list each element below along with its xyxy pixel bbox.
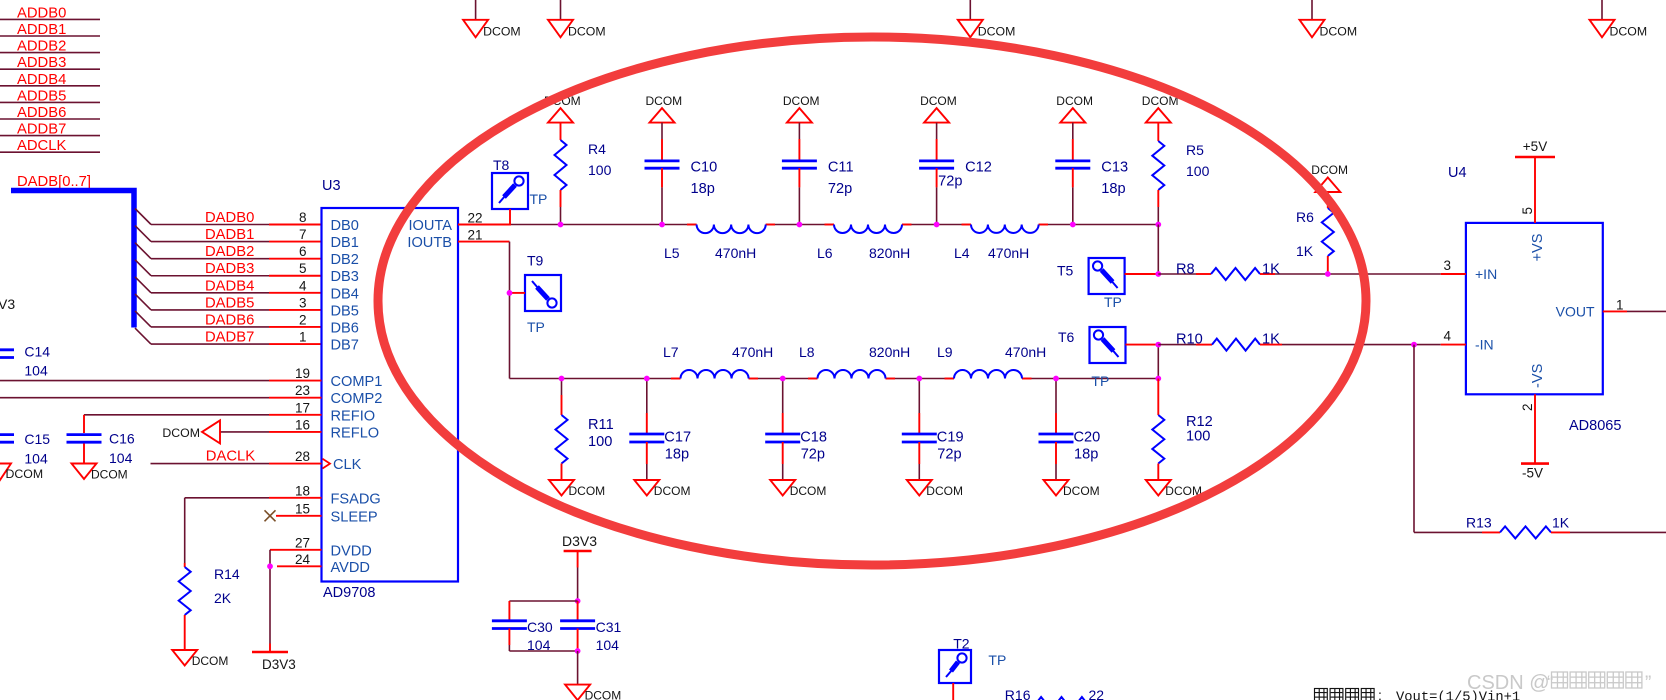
power -5V: [1521, 394, 1549, 480]
bus DADB[0..7] thick line: [11, 191, 134, 328]
svg-text:T2: T2: [953, 636, 970, 652]
svg-text:C15: C15: [24, 431, 50, 447]
svg-text:C20: C20: [1074, 430, 1101, 446]
capacitor C17 18p: [629, 379, 691, 481]
svg-text:“: “: [1547, 673, 1553, 694]
junction C13 / top chain: [1070, 222, 1076, 228]
svg-text:3: 3: [1443, 258, 1451, 273]
resistor R8 1K: [1158, 262, 1280, 281]
svg-text:D3V3: D3V3: [562, 533, 597, 549]
test point T2 TP: [939, 636, 1006, 700]
junction -IN / R13 branch: [1411, 342, 1417, 348]
svg-text:L4: L4: [954, 245, 970, 261]
svg-text:1K: 1K: [1262, 262, 1280, 278]
U4 pin 3 +IN: [1441, 258, 1497, 282]
inductor L6 820nH: [817, 225, 910, 262]
ground DCOM above C12: [920, 94, 957, 123]
svg-text:ADDB5: ADDB5: [17, 88, 66, 104]
svg-text:C14: C14: [24, 344, 50, 360]
svg-text:2K: 2K: [214, 590, 232, 606]
svg-text:ADDB3: ADDB3: [17, 55, 66, 71]
net label ADDB2 with wire: [0, 39, 100, 55]
svg-text:18p: 18p: [691, 181, 715, 197]
inductor L8 820nH: [799, 344, 910, 379]
svg-text:2: 2: [299, 312, 307, 327]
wire bottom chain: [510, 378, 1159, 380]
svg-text:DCOM: DCOM: [1063, 484, 1100, 498]
ground DCOM below C17: [634, 480, 690, 498]
wire DADB6 with net label: [151, 312, 322, 328]
svg-text:DB3: DB3: [331, 269, 359, 285]
svg-text:-IN: -IN: [1475, 337, 1494, 353]
svg-text:AVDD: AVDD: [331, 560, 370, 576]
svg-text:R6: R6: [1296, 209, 1314, 225]
U3 pin 8 DB0: [299, 210, 359, 234]
wire R13 to right edge: [1570, 531, 1666, 533]
svg-text:DB5: DB5: [331, 303, 359, 319]
svg-text:DCOM: DCOM: [1320, 25, 1358, 39]
junction R6 / +IN wire: [1325, 271, 1331, 277]
svg-text:ADDB2: ADDB2: [17, 39, 66, 55]
ground DCOM below R14: [172, 615, 228, 668]
junction R5 / top chain: [1155, 222, 1161, 228]
capacitor C18 72p: [765, 379, 827, 481]
wire VOUT to right edge: [1627, 310, 1666, 312]
svg-text:ADDB6: ADDB6: [17, 105, 66, 121]
junction D3V3 bottom node: [575, 648, 581, 654]
wire to COMP2 from left edge: [0, 397, 269, 399]
svg-text:T5: T5: [1057, 263, 1074, 279]
svg-text:DCOM: DCOM: [790, 484, 827, 498]
junction C20 / bottom chain: [1053, 376, 1059, 382]
wire R10 to op-amp -IN: [1282, 344, 1441, 346]
svg-text:V3: V3: [0, 296, 15, 312]
U3 pin 28 CLK with clock chevron: [269, 449, 362, 473]
wire DADB7 with net label: [151, 330, 322, 346]
svg-text:7: 7: [299, 227, 307, 242]
svg-text:TP: TP: [988, 652, 1006, 668]
ground DCOM above C11: [783, 94, 820, 123]
svg-text:820nH: 820nH: [869, 344, 910, 360]
svg-text:REFLO: REFLO: [331, 425, 380, 441]
bus entry DADB0: [135, 209, 151, 225]
inductor L9 470nH: [937, 344, 1046, 379]
svg-text:L5: L5: [664, 245, 680, 261]
svg-text:ADDB0: ADDB0: [17, 5, 66, 21]
wire DADB1 with net label: [151, 227, 322, 243]
U4 designator: [1448, 165, 1467, 181]
ground DCOM above R4: [544, 94, 581, 123]
svg-text:DCOM: DCOM: [926, 484, 963, 498]
svg-text:L6: L6: [817, 245, 833, 261]
svg-text:C13: C13: [1101, 159, 1128, 175]
svg-text:100: 100: [1186, 429, 1210, 445]
inductor L5 470nH: [664, 225, 766, 262]
ground DCOM top edge at x=1602: [1590, 0, 1648, 39]
svg-text:L9: L9: [937, 344, 953, 360]
svg-text:18p: 18p: [1101, 181, 1125, 197]
svg-text:T8: T8: [493, 157, 510, 173]
svg-text:4: 4: [299, 278, 307, 293]
svg-text:DCOM: DCOM: [978, 25, 1016, 39]
IC U3 AD9708 body: [322, 208, 459, 582]
svg-text:5: 5: [1520, 207, 1535, 215]
svg-text:C17: C17: [664, 430, 691, 446]
formula text (CJK) zhuanhuan gongshi: [1315, 687, 1382, 700]
junction C17 / bottom chain: [644, 376, 650, 382]
svg-text:C12: C12: [965, 159, 992, 175]
svg-text:104: 104: [596, 637, 620, 653]
svg-text:+5V: +5V: [1523, 139, 1547, 154]
svg-text:DACLK: DACLK: [206, 448, 255, 464]
svg-text:72p: 72p: [938, 174, 962, 190]
svg-text:DADB5: DADB5: [205, 295, 254, 311]
svg-text:DADB[0..7]: DADB[0..7]: [17, 174, 91, 190]
U3 pin 5 DB3: [299, 261, 359, 285]
junction C11 / top chain: [797, 222, 803, 228]
ground DCOM top edge at x=1312: [1300, 0, 1358, 39]
svg-text:4: 4: [1443, 329, 1451, 344]
bus entry DADB1: [135, 226, 151, 242]
U3 pin 21 IOUTB: [407, 228, 482, 251]
svg-text:100: 100: [1186, 163, 1210, 179]
svg-text:DCOM: DCOM: [646, 94, 683, 108]
svg-text:2: 2: [1520, 403, 1535, 411]
bus entry DADB7: [135, 328, 151, 344]
U3 pin 16 REFLO: [269, 417, 379, 441]
ground DCOM top edge at x=970.3: [958, 0, 1016, 39]
red ellipse annotation: [378, 37, 1366, 565]
ground DCOM left-pointing at REFLO: [162, 420, 220, 443]
ground DCOM below C18: [770, 480, 826, 498]
svg-text:IOUTB: IOUTB: [407, 235, 452, 251]
svg-text:820nH: 820nH: [869, 245, 910, 261]
ground DCOM top edge at x=475.6: [463, 0, 521, 39]
power D3V3 decoupling: [562, 533, 597, 601]
net label ADCLK with wire: [0, 138, 100, 154]
junction AVDD node: [267, 563, 273, 569]
wire IOUTA top chain: [458, 224, 1158, 226]
junction bottom chain / R12: [1155, 376, 1161, 382]
capacitor C20 18p: [1039, 379, 1101, 481]
junction T9 node: [507, 290, 513, 296]
svg-text:ADDB1: ADDB1: [17, 22, 66, 38]
net label ADDB1 with wire: [0, 22, 100, 38]
junction C10 / top chain: [659, 222, 665, 228]
U3 pin 17 REFIO: [269, 400, 375, 424]
ground DCOM above C10: [646, 94, 683, 123]
junction R11 / bottom chain: [559, 376, 565, 382]
svg-text:470nH: 470nH: [715, 245, 756, 261]
svg-text:L7: L7: [663, 344, 679, 360]
svg-text:DADB2: DADB2: [205, 244, 254, 260]
junction C18 / bottom chain: [780, 376, 786, 382]
svg-text:DADB1: DADB1: [205, 227, 254, 243]
svg-text:D3V3: D3V3: [262, 657, 296, 672]
svg-text:C31: C31: [596, 619, 622, 635]
svg-text:FSADG: FSADG: [331, 491, 381, 507]
svg-text:+VS: +VS: [1530, 233, 1546, 261]
ground DCOM below C19: [907, 480, 963, 498]
formula Vout=(1/5)Vin+1: [1396, 690, 1520, 700]
svg-text:DADB4: DADB4: [205, 278, 254, 294]
svg-text:TP: TP: [1104, 294, 1122, 310]
svg-text:DCOM: DCOM: [91, 468, 128, 482]
watermark CSDN: [1467, 672, 1651, 694]
svg-text:DCOM: DCOM: [654, 484, 691, 498]
svg-text:DCOM: DCOM: [585, 689, 622, 700]
svg-text:DCOM: DCOM: [920, 94, 957, 108]
svg-text:5: 5: [299, 261, 307, 276]
svg-text:C10: C10: [691, 159, 718, 175]
svg-text:16: 16: [295, 417, 310, 432]
wire top chain down to R8 row: [1157, 225, 1159, 275]
svg-text:72p: 72p: [828, 181, 852, 197]
svg-text:470nH: 470nH: [732, 344, 773, 360]
U3 pin 1 DB7: [299, 330, 359, 354]
svg-text:TP: TP: [527, 319, 545, 335]
svg-text:DB6: DB6: [331, 320, 359, 336]
svg-text:REFIO: REFIO: [331, 408, 376, 424]
resistor R6 1K: [1296, 192, 1334, 274]
wire FSADG to R14: [185, 498, 269, 567]
wire bottom chain up to R10 row: [1157, 345, 1159, 379]
svg-text:L8: L8: [799, 344, 815, 360]
svg-text:R11: R11: [588, 417, 614, 433]
svg-text:18: 18: [295, 483, 310, 498]
svg-text:AD8065: AD8065: [1569, 418, 1621, 434]
svg-text:17: 17: [295, 400, 310, 415]
svg-text:DB0: DB0: [331, 218, 359, 234]
svg-text:DCOM: DCOM: [1311, 163, 1348, 177]
svg-text:22: 22: [1089, 687, 1105, 700]
U3 pin 22 IOUTA: [408, 211, 482, 235]
junction C19 / bottom chain: [916, 376, 922, 382]
wire R8 to op-amp +IN: [1275, 273, 1441, 275]
svg-text:DCOM: DCOM: [568, 25, 606, 39]
ground DCOM above R6: [1311, 163, 1348, 192]
svg-text:23: 23: [295, 383, 310, 398]
U3 pin 23 COMP2: [269, 383, 382, 407]
svg-text:C16: C16: [109, 431, 135, 447]
svg-text:DB4: DB4: [331, 286, 359, 302]
svg-text:DVDD: DVDD: [331, 543, 372, 559]
capacitor C13 18p: [1055, 123, 1128, 225]
net label ADDB6 with wire: [0, 105, 100, 121]
svg-text:U4: U4: [1448, 165, 1467, 181]
svg-text:T6: T6: [1058, 329, 1075, 345]
svg-text:DADB3: DADB3: [205, 261, 254, 277]
svg-text:R8: R8: [1176, 262, 1195, 278]
svg-text:DCOM: DCOM: [1610, 25, 1648, 39]
wire DADB4 with net label: [151, 278, 322, 294]
resistor R13 1K: [1466, 515, 1570, 539]
svg-text:22: 22: [468, 211, 483, 226]
svg-text:6: 6: [299, 244, 307, 259]
svg-text:SLEEP: SLEEP: [331, 509, 378, 525]
wire REFLO to DCOM: [220, 431, 269, 433]
wire -IN branch down to R13 row: [1414, 345, 1482, 533]
svg-text:DADB7: DADB7: [205, 330, 254, 346]
capacitor C19 72p: [902, 379, 964, 481]
svg-text:27: 27: [295, 535, 310, 550]
resistor R12 100: [1152, 379, 1212, 481]
svg-text:DCOM: DCOM: [483, 25, 521, 39]
resistor R4 100: [555, 123, 612, 225]
U3 pin 19 COMP1: [269, 366, 382, 390]
ground DCOM below C16: [72, 444, 128, 482]
svg-text:R13: R13: [1466, 515, 1492, 531]
bus DADB[0..7] label: [17, 174, 91, 190]
bus entry DADB3: [135, 260, 151, 276]
inductor L7 470nH: [663, 344, 773, 379]
svg-text:DCOM: DCOM: [783, 94, 820, 108]
ground DCOM below R12: [1146, 480, 1202, 498]
U3 designator: [322, 178, 341, 194]
junction R4 / top chain: [558, 222, 564, 228]
svg-text:TP: TP: [530, 191, 548, 207]
bus entry DADB6: [135, 311, 151, 327]
wire DADB5 with net label: [151, 295, 322, 311]
U3 pin 27 DVDD: [270, 535, 372, 559]
wire DADB3 with net label: [151, 261, 322, 277]
svg-text:8: 8: [299, 210, 307, 225]
svg-text:1K: 1K: [1296, 243, 1314, 259]
svg-text:72p: 72p: [937, 447, 961, 463]
svg-text:C30: C30: [527, 619, 553, 635]
U3 pin 24 AVDD: [277, 552, 370, 576]
ground DCOM below R11: [549, 480, 605, 498]
wire DADB0 with net label: [151, 210, 322, 226]
svg-text:DB2: DB2: [331, 252, 359, 268]
wire REFIO to C16: [84, 415, 269, 433]
ground DCOM top edge at x=560.5: [548, 0, 606, 39]
op-amp U4 body: [1466, 223, 1603, 394]
svg-text:24: 24: [295, 552, 311, 567]
svg-text:R16: R16: [1005, 687, 1031, 700]
capacitor C30 104: [492, 601, 578, 653]
svg-text:104: 104: [527, 637, 551, 653]
svg-text:72p: 72p: [801, 447, 825, 463]
svg-text:1: 1: [1616, 297, 1624, 312]
test point T9 TP: [510, 253, 562, 336]
U3 pin 15 SLEEP with no-connect X: [265, 501, 378, 525]
inductor L4 470nH: [954, 225, 1039, 262]
svg-text:+IN: +IN: [1475, 266, 1497, 282]
svg-text:AD9708: AD9708: [323, 585, 375, 601]
svg-text:ADDB4: ADDB4: [17, 72, 66, 88]
svg-text:C19: C19: [937, 430, 964, 446]
net label ADDB4 with wire: [0, 72, 100, 88]
net label ADDB7 with wire: [0, 122, 100, 138]
svg-text:100: 100: [588, 434, 612, 450]
svg-text:R14: R14: [214, 566, 240, 582]
svg-text:104: 104: [24, 451, 48, 467]
svg-text:DCOM: DCOM: [192, 654, 229, 668]
capacitor C31 104: [560, 601, 621, 653]
junction C12 / top chain: [934, 222, 940, 228]
capacitor C15 104: [0, 431, 50, 467]
U3 pin 4 DB4: [299, 278, 359, 302]
svg-text:CSDN @: CSDN @: [1467, 672, 1550, 694]
svg-text:-5V: -5V: [1522, 466, 1543, 481]
test point T8 TP: [492, 157, 547, 225]
svg-text:104: 104: [109, 450, 133, 466]
resistor R11 100: [556, 379, 614, 481]
ground DCOM below C20: [1044, 480, 1100, 498]
resistor R10 1K: [1158, 332, 1282, 351]
svg-text:COMP1: COMP1: [331, 374, 383, 390]
bus entry DADB4: [135, 277, 151, 293]
junction T5 / R8 node: [1155, 271, 1161, 277]
capacitor C11 72p: [782, 123, 854, 225]
bus entry DADB2: [135, 243, 151, 259]
svg-text:C11: C11: [828, 159, 854, 175]
capacitor C10 18p: [645, 123, 718, 225]
net label ADDB5 with wire: [0, 88, 100, 104]
wire to COMP1 from left edge: [0, 380, 269, 382]
svg-text:CLK: CLK: [333, 457, 362, 473]
svg-text:1: 1: [299, 330, 307, 345]
svg-text:”: ”: [1645, 673, 1651, 694]
power D3V3 at AVDD: [252, 652, 296, 672]
svg-text:100: 100: [588, 162, 612, 178]
svg-text:VOUT: VOUT: [1556, 304, 1595, 320]
svg-text:R5: R5: [1186, 142, 1204, 158]
wire DADB2 with net label: [151, 244, 322, 260]
capacitor C12 72p: [919, 123, 992, 225]
svg-text:1K: 1K: [1552, 515, 1570, 531]
resistor R14 2K: [179, 566, 240, 615]
test point T5 TP: [1057, 258, 1158, 310]
svg-text:19: 19: [295, 366, 310, 381]
svg-text:18p: 18p: [665, 447, 689, 463]
U4 pin 4 -IN: [1441, 329, 1494, 353]
ground DCOM below C30 C31: [565, 651, 621, 700]
svg-text:18p: 18p: [1074, 447, 1098, 463]
ground DCOM above C13: [1056, 94, 1093, 123]
svg-text:ADDB7: ADDB7: [17, 122, 66, 138]
svg-text:T9: T9: [527, 253, 544, 269]
capacitor C14 104: [0, 344, 50, 379]
svg-text:DADB0: DADB0: [205, 210, 254, 226]
U3 pin 3 DB5: [299, 295, 359, 319]
svg-text:R10: R10: [1176, 332, 1203, 348]
net label 3V3 (clipped): [0, 296, 15, 312]
junction D3V3 top node: [575, 598, 581, 604]
bus entry DADB5: [135, 294, 151, 310]
U3 part number AD9708: [323, 585, 375, 601]
svg-text:DB1: DB1: [331, 235, 359, 251]
svg-text:DB7: DB7: [331, 338, 359, 354]
test point T6 TP: [1058, 327, 1158, 389]
svg-text:1K: 1K: [1262, 332, 1280, 348]
svg-text:DCOM: DCOM: [569, 484, 606, 498]
svg-text:C18: C18: [800, 430, 827, 446]
svg-text:R4: R4: [588, 141, 606, 157]
svg-text:21: 21: [468, 228, 483, 243]
svg-text:IOUTA: IOUTA: [408, 218, 452, 234]
wire DACLK with net label: [151, 448, 270, 464]
svg-text:COMP2: COMP2: [331, 391, 383, 407]
U4 pin 5 +VS: [1520, 207, 1546, 262]
U4 part number AD8065: [1569, 418, 1621, 434]
svg-text:-VS: -VS: [1530, 363, 1546, 388]
svg-text:DCOM: DCOM: [6, 467, 44, 481]
svg-text:U3: U3: [322, 178, 341, 194]
svg-text:DCOM: DCOM: [162, 426, 200, 440]
svg-text:DCOM: DCOM: [1056, 94, 1093, 108]
